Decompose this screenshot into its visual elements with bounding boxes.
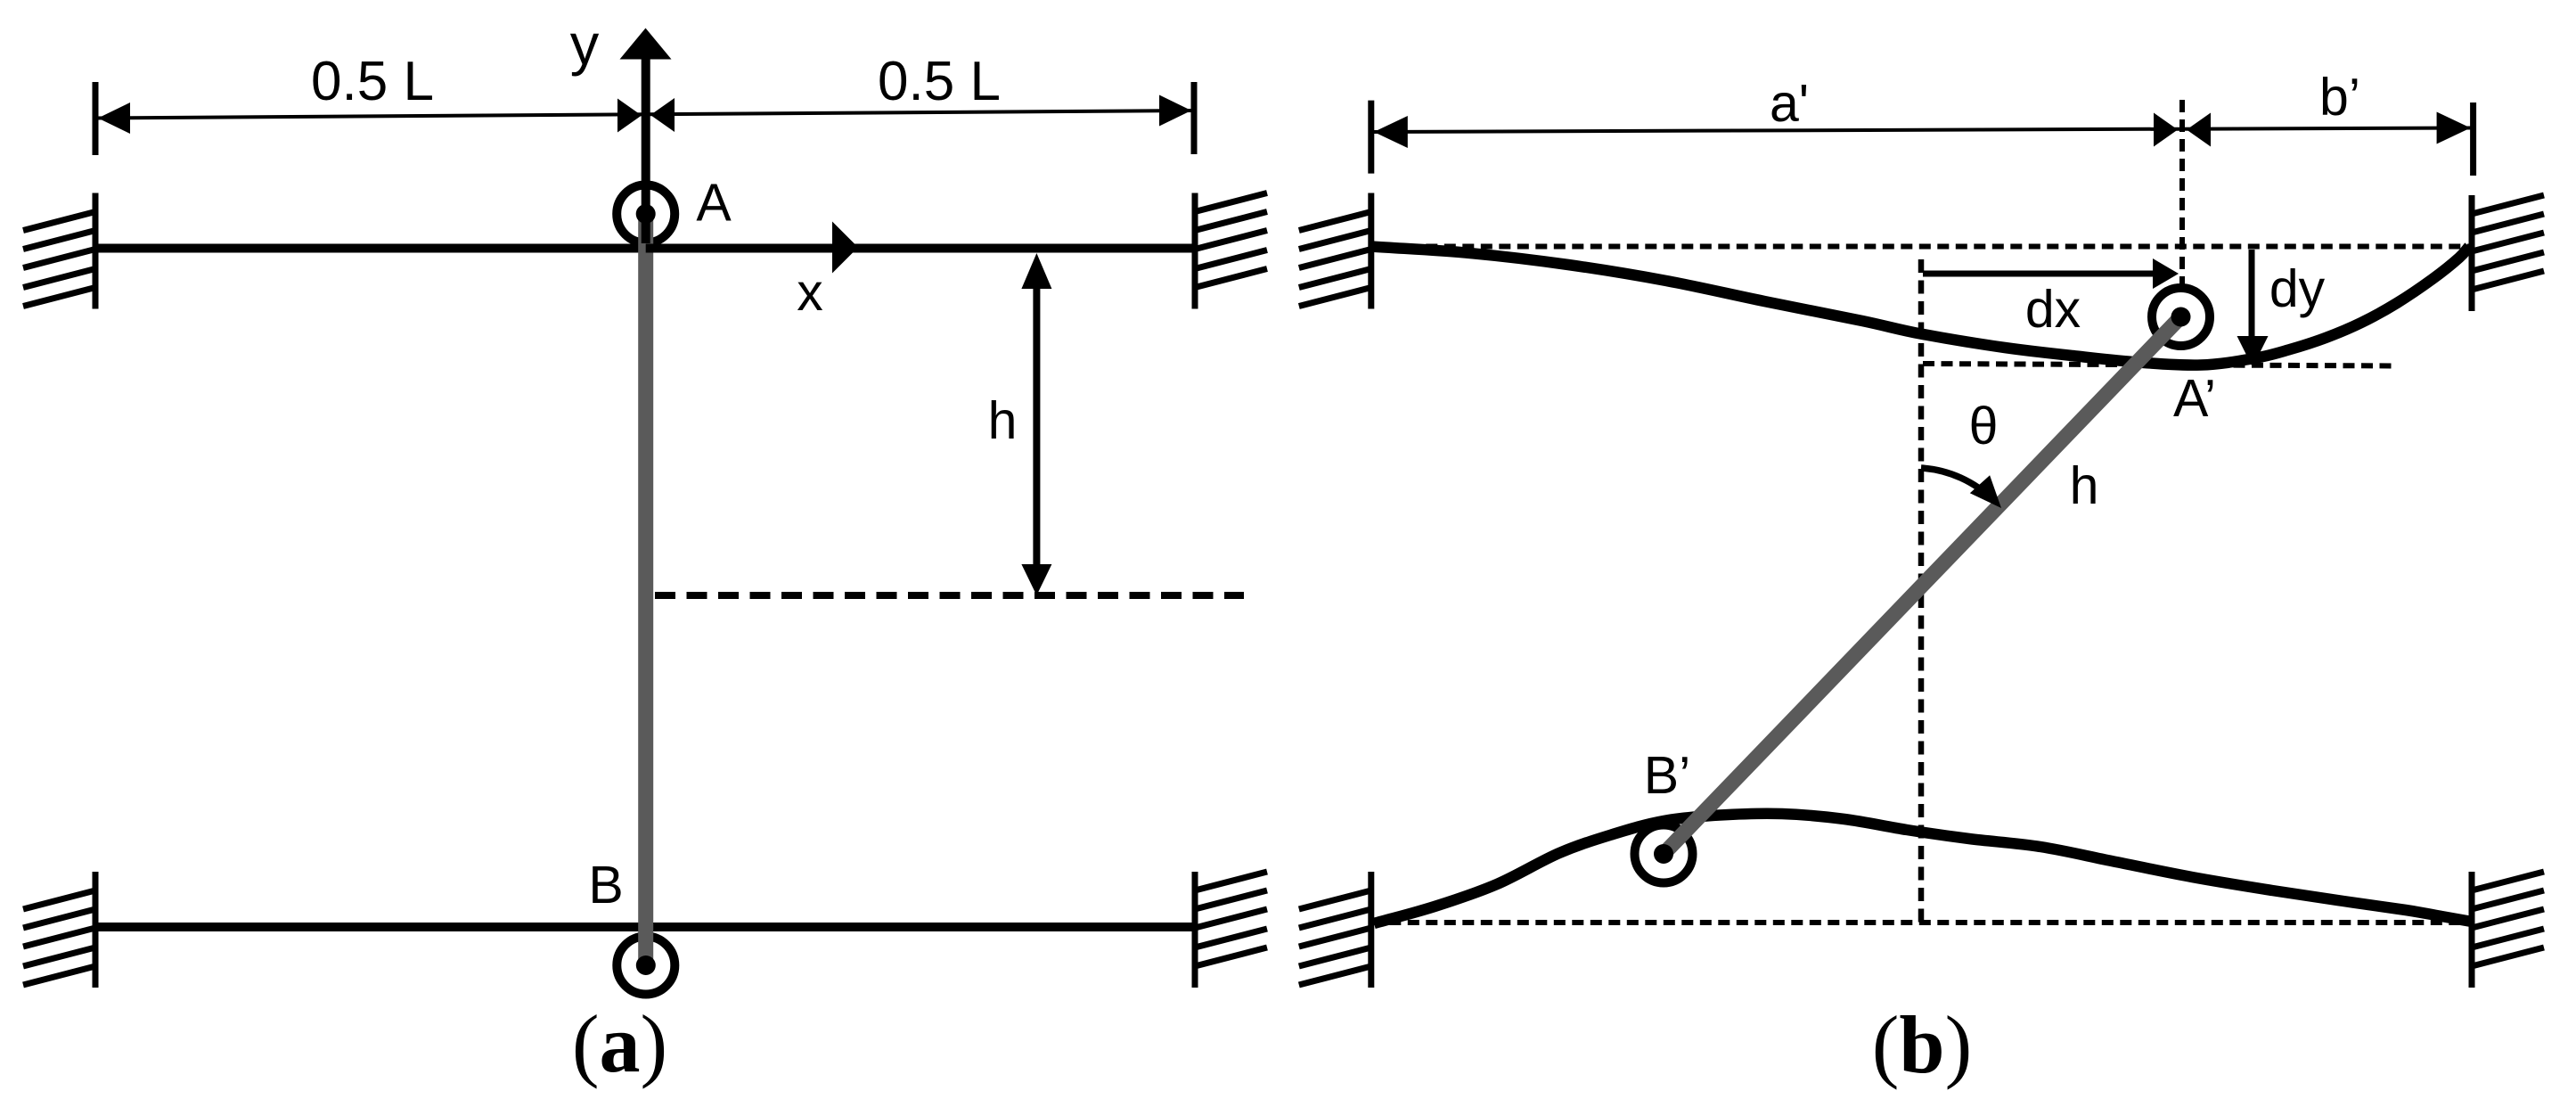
beam AB top (a): [95, 244, 1195, 253]
fixed support top-right (a): [1192, 193, 1198, 309]
fixed support top-left (b): [1368, 193, 1374, 309]
pin A' dot (b): [2171, 308, 2191, 327]
pin B dot (a): [636, 955, 656, 975]
fixed support bottom-right (a): [1192, 872, 1198, 988]
pin B ring (a): [617, 937, 675, 995]
dim arrow centre-right (a): [650, 98, 675, 132]
pin B' dot (b): [1654, 844, 1673, 864]
dim arrow centre-left (a): [617, 99, 642, 133]
dimension dx (b): [1923, 271, 2156, 277]
svg-text:(b): (b): [1872, 999, 1972, 1090]
svg-text:dx: dx: [2025, 280, 2081, 339]
dimension dy (b): [2249, 250, 2255, 343]
pin B' ring (b): [1635, 825, 1693, 883]
rigid link bar A'B' (b): [1664, 317, 2181, 855]
dim arrow right end (b): [2437, 112, 2471, 144]
fixed support bottom-left (a): [93, 872, 99, 988]
fixed support bottom-left (b): [1368, 872, 1374, 988]
svg-text:y: y: [570, 12, 600, 77]
svg-text:A’: A’: [2173, 369, 2216, 428]
svg-text:h: h: [988, 391, 1018, 450]
dashed reference line (a): [655, 592, 1244, 599]
dashed line at max deflection level (b): [1923, 364, 2398, 366]
svg-text:A: A: [696, 174, 732, 233]
svg-text:b’: b’: [2319, 68, 2360, 127]
pin A' ring (b): [2152, 288, 2210, 346]
pin A dot (a): [636, 204, 656, 224]
dim arrow at divider pointing right (b): [2154, 113, 2178, 147]
svg-text:B: B: [588, 856, 623, 914]
svg-text:θ: θ: [1969, 397, 1999, 455]
y axis (a): [642, 53, 650, 243]
undeformed beam level dashed bottom (b): [1371, 920, 2472, 925]
dimension h (a): [1033, 263, 1040, 584]
svg-text:(a): (a): [572, 998, 667, 1089]
deformed bottom beam curve (b): [1374, 814, 2472, 923]
dimension line a'/b' (b): [1371, 128, 2472, 133]
beam CD bottom (a): [95, 923, 1195, 931]
dimension tick left (b): [1368, 101, 1374, 174]
fixed support bottom-right (b): [2469, 872, 2475, 988]
rigid link bar AB (a): [638, 214, 653, 965]
dim arrow left end (b): [1374, 116, 1408, 148]
svg-text:a': a': [1770, 74, 1809, 133]
dimension line 0.5L + 0.5L (a): [95, 111, 1194, 119]
undeformed beam level dashed top (b): [1371, 244, 2472, 250]
svg-text:0.5 L: 0.5 L: [311, 51, 434, 112]
dimension tick right (b): [2470, 103, 2476, 176]
svg-text:x: x: [797, 263, 823, 322]
dim arrow at divider pointing left (b): [2187, 113, 2211, 147]
deformed top beam curve (b): [1371, 247, 2469, 365]
vertical dashed divider at A' (b): [2179, 100, 2185, 289]
dimension tick left (a): [93, 82, 99, 155]
dimension tick right (a): [1191, 82, 1198, 154]
svg-text:0.5 L: 0.5 L: [878, 51, 1001, 112]
svg-text:B’: B’: [1644, 746, 1690, 805]
svg-text:h: h: [2070, 456, 2099, 515]
svg-text:dy: dy: [2269, 259, 2326, 318]
angle theta arc (b): [1921, 468, 1994, 501]
vertical dashed line at theta vertex (b): [1918, 259, 1925, 923]
fixed support top-right (b): [2469, 195, 2475, 311]
pin A ring (a): [617, 185, 675, 243]
x axis (a): [646, 244, 832, 253]
dim arrow left end (a): [98, 103, 130, 134]
dim arrow right end (a): [1159, 95, 1191, 127]
fixed support top-left (a): [93, 193, 99, 309]
